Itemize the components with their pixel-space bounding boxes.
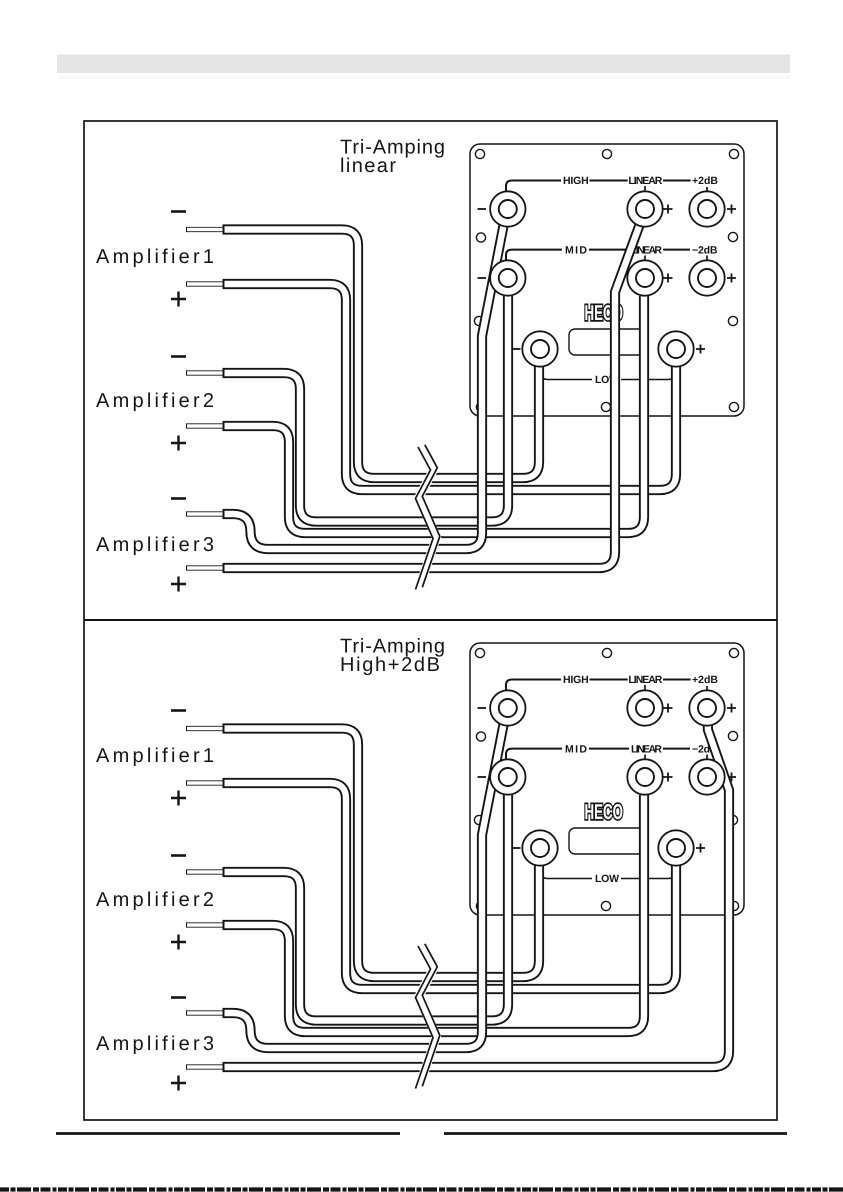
top gray bar: [57, 55, 790, 74]
faint shadow line under gray bar: [57, 77, 790, 79]
outer frame of both diagrams: [84, 121, 777, 1120]
diagram 2 lower layer: [96, 636, 744, 1091]
diagram 1 upper layer: [416, 191, 725, 589]
wire amp3 plus to +2dB (high+2dB mode): [223, 711, 730, 1067]
wire amp3 plus to HIGH LINEAR (linear mode): [223, 211, 646, 568]
svg-text:linear: linear: [340, 155, 396, 177]
footer rule left: [56, 1132, 400, 1135]
bottom dashed edge: [0, 1187, 843, 1191]
diagram 1 lower layer: [96, 137, 744, 592]
diagram 2 upper layer: [416, 690, 725, 1088]
divider between diagrams: [84, 619, 777, 621]
footer rule right: [444, 1132, 787, 1135]
